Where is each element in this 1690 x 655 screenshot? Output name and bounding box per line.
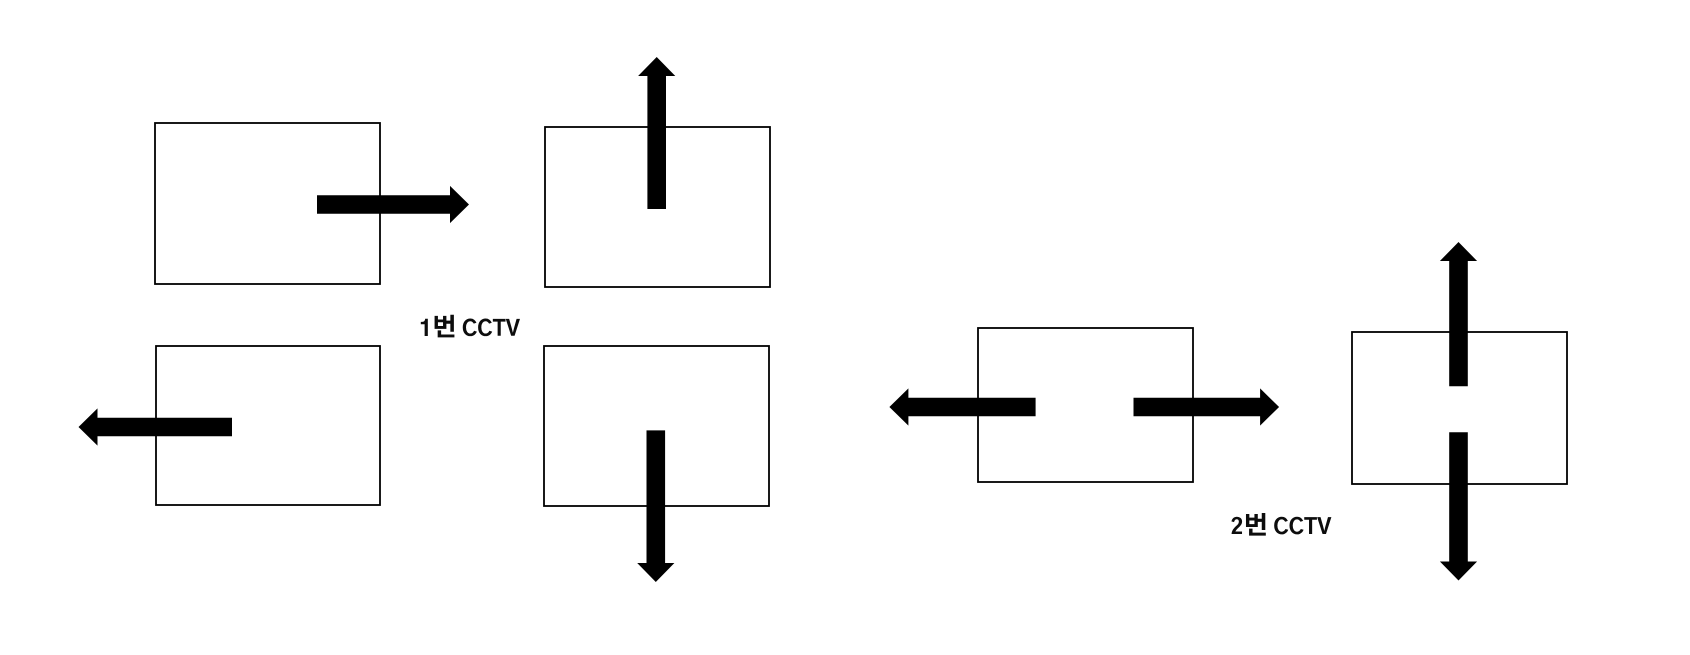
label "2번 CCTV" [1231,513,1331,536]
camera box 5 (left-right pan view) [978,328,1193,482]
camera box 6 (up-down pan view) [1352,332,1567,484]
camera box 4 (down-pan view) [544,346,769,506]
camera box 3 (left-pan view) [156,346,380,505]
arrow left from box 5 [889,388,1035,425]
arrow right from box 5 [1134,388,1280,425]
camera box 1 (right-pan view) [155,123,380,284]
arrow down from box 4 [637,430,674,582]
camera box 2 (up-pan view) [545,127,770,287]
arrow up from box 6 [1440,242,1477,386]
arrow right from box 1 [317,186,469,223]
arrow down from box 6 [1440,432,1477,580]
arrow up from box 2 [638,57,675,209]
label "1번 CCTV" [421,315,520,338]
arrow left from box 3 [79,408,233,445]
